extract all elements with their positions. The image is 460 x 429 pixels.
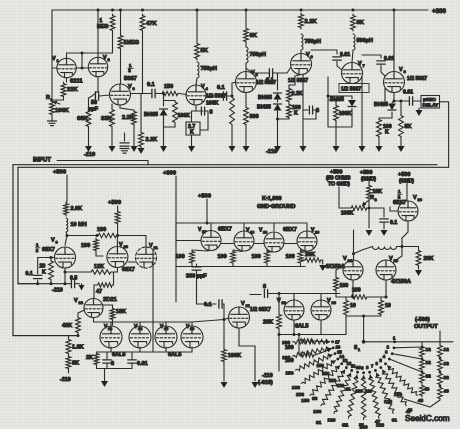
resistor 12K [90, 270, 112, 274]
wire 750uH to V6 [300, 50, 302, 54]
wire V26 grid [390, 207, 398, 211]
tube V4 [186, 85, 206, 105]
svg-text:V: V [306, 52, 310, 58]
resistor 100 (V24-V25) [350, 295, 368, 299]
wire grid link V19-V20 [285, 243, 297, 245]
svg-text:2D21: 2D21 [103, 297, 118, 303]
tube V14 [129, 326, 151, 348]
resistor 1MEG (second) [118, 34, 123, 50]
switch contact 7 [374, 369, 377, 372]
svg-text:120: 120 [337, 383, 345, 388]
svg-text:μSEC: μSEC [423, 97, 436, 103]
tube V8 [384, 72, 405, 93]
junction on +300 rail [97, 9, 100, 12]
wire 47K down to coupling node [142, 32, 144, 94]
resistor 2.0K [64, 202, 69, 216]
svg-text:R: R [46, 95, 50, 101]
tube V11 (dashed) [136, 247, 157, 268]
border top outer [13, 164, 437, 166]
wire cap to V6 grid [273, 67, 291, 73]
wire +300 down [175, 176, 177, 302]
svg-text:91: 91 [392, 417, 398, 423]
wire 22K to R1 node [52, 98, 64, 100]
wire border outer corner to 43K [13, 335, 78, 337]
svg-text:2.2K: 2.2K [146, 137, 158, 143]
junction on +300 rail [111, 9, 114, 12]
svg-text:7: 7 [371, 364, 374, 369]
capacitor bypass at -110 bus [124, 133, 126, 141]
svg-text:DELAY: DELAY [423, 103, 440, 109]
svg-text:0.1: 0.1 [390, 220, 397, 226]
inductor 750uH (V6) [301, 34, 303, 50]
svg-text:V: V [74, 298, 78, 304]
diode IN485 (V8) [384, 88, 386, 101]
resistor 2.2K (V3 cathode) [132, 110, 137, 126]
wire V1 cathode to 22K [66, 79, 68, 83]
svg-text:43K: 43K [62, 323, 72, 329]
svg-text:17: 17 [335, 340, 340, 345]
wire contact 2 to ladder [394, 346, 422, 349]
wire V24 plate [353, 230, 355, 260]
svg-text:K: K [190, 130, 194, 136]
svg-text:1.8K: 1.8K [72, 345, 84, 351]
wire 8 return [303, 110, 316, 119]
ground below R1 [51, 116, 53, 121]
svg-text:11: 11 [154, 245, 159, 250]
svg-text:6AL5: 6AL5 [295, 324, 308, 330]
box uSEC DELAY [421, 96, 440, 109]
svg-text:100: 100 [81, 243, 90, 249]
svg-text:100K: 100K [178, 113, 191, 119]
resistor fan position 9 [361, 376, 365, 420]
svg-text:120: 120 [327, 417, 335, 423]
tube V21 [229, 307, 250, 328]
wire 1MEG to V3 plate [120, 50, 122, 84]
svg-text:750μH: 750μH [201, 66, 218, 72]
svg-text:4X150A: 4X150A [391, 279, 411, 285]
wire bus to grid junction [81, 53, 83, 68]
svg-text:-110: -110 [84, 152, 95, 158]
svg-text:11: 11 [351, 364, 356, 369]
wire V17 grid feed [176, 240, 201, 242]
wire 10MH to V9 plate node [66, 232, 67, 236]
wire V24 cathode [352, 280, 354, 297]
svg-text:V: V [119, 242, 123, 248]
svg-text:IN485: IN485 [144, 112, 158, 118]
svg-text:10: 10 [356, 365, 361, 370]
junction bias bottom [276, 118, 279, 121]
svg-text:V: V [277, 298, 281, 304]
resistor 100K (R2 pot) [339, 207, 350, 209]
wire V3 cathode to 2.2K [120, 105, 134, 110]
svg-text:V: V [52, 56, 56, 62]
wire V12 grid left to 43K [78, 310, 85, 316]
svg-text:9: 9 [361, 366, 364, 371]
switch contact 12 [345, 366, 348, 369]
wire bias to -110 [277, 119, 279, 147]
wire left rail from +300 down to R1 [51, 10, 53, 100]
svg-text:-110: -110 [262, 373, 273, 379]
switch contact 6 [379, 366, 382, 369]
svg-text:K·1,000: K·1,000 [262, 196, 282, 202]
svg-text:8: 8 [263, 284, 266, 290]
wire 0.01 to V7 grid [337, 62, 342, 71]
wire V9 cathode [64, 268, 66, 284]
switch contact 10 [356, 371, 359, 374]
resistor 18K [102, 305, 113, 307]
arrow 2.2K second to -110 [140, 148, 142, 149]
resistor 20K (V9 grid) [49, 260, 54, 282]
tube V23 [311, 300, 331, 320]
resistor 6K (V7 plate) [351, 14, 356, 31]
arrow V4 grid network to -110 [163, 127, 165, 147]
svg-text:5K: 5K [201, 48, 209, 54]
arrow filter to ground [104, 369, 106, 382]
svg-text:SeekIC.com: SeekIC.com [405, 414, 450, 423]
wire V12 cathode bus [94, 318, 193, 323]
resistor 1.8K [68, 336, 70, 338]
tube V12 [84, 299, 103, 318]
resistor 10 (left) [346, 296, 350, 298]
junction on +300 rail [352, 9, 355, 12]
inductor 10 MH [66, 218, 68, 232]
wire +300 top rail [52, 9, 428, 11]
wire V7 grid network [336, 61, 338, 63]
resistor 100 (V18) [231, 250, 236, 265]
svg-text:2: 2 [36, 248, 39, 253]
svg-text:14: 14 [138, 327, 143, 331]
resistor 20K (V25) [416, 249, 421, 267]
svg-text:6K: 6K [250, 33, 258, 39]
svg-text:100K: 100K [341, 211, 354, 217]
junction V21 grid node [223, 318, 226, 321]
svg-text:10 MH: 10 MH [71, 222, 87, 228]
arrow 20K V20 [321, 260, 324, 264]
svg-text:2.2K: 2.2K [122, 115, 134, 121]
svg-text:5687: 5687 [124, 76, 137, 82]
svg-text:47K: 47K [146, 21, 157, 27]
inductor (V24/V25 plates) [373, 247, 397, 250]
resistor 100K (V6 bias) [287, 103, 292, 119]
svg-text:160: 160 [292, 385, 300, 391]
junction V1/V2 bus [81, 52, 84, 55]
svg-text:2: 2 [108, 57, 111, 62]
resistor fan position 11 [334, 373, 351, 413]
svg-text:6AL5: 6AL5 [168, 352, 181, 358]
wire 500uH to V7 [352, 50, 353, 63]
wire 0.01 to V8 grid [381, 66, 385, 77]
wire 50uuF to V3 grid [99, 95, 110, 96]
svg-text:20K: 20K [424, 256, 434, 262]
svg-text:10: 10 [385, 303, 391, 309]
svg-text:22: 22 [426, 374, 432, 380]
capacitor 0.1 (V21 grid) [197, 303, 217, 305]
resistor 100K (V5 grid) [231, 95, 234, 98]
svg-text:100K: 100K [339, 111, 352, 117]
wire 1MEG top to rail [120, 10, 122, 34]
ladder resistor chain B [439, 342, 441, 344]
arrow 2.7K to -110 [191, 135, 193, 147]
resistor 100 (V20) [298, 250, 303, 265]
arrow 0.5 ground [75, 283, 80, 285]
svg-text:0.1: 0.1 [266, 78, 274, 84]
wire 12K to 47 elbow [112, 272, 114, 285]
svg-text:91: 91 [342, 423, 348, 429]
switch contact 1 [393, 340, 396, 343]
wire V1 plate to grid bus [67, 53, 99, 58]
wire rail to 6K [245, 10, 247, 27]
svg-text:100: 100 [252, 254, 261, 260]
wire cap to V5 grid [227, 82, 236, 96]
junction on +300 rail [141, 9, 144, 12]
inductor 750uH (V4 plate) [197, 62, 199, 78]
switch contact 11 [350, 369, 353, 372]
svg-text:1/2 5687: 1/2 5687 [407, 76, 427, 82]
wire delay box to right border [440, 102, 449, 168]
svg-text:19: 19 [263, 231, 267, 235]
wire 18K bottom to V13 bus [112, 321, 114, 325]
resistor fan position 5 [388, 366, 418, 396]
svg-text:8: 8 [210, 110, 213, 116]
wire x176 vertical [175, 223, 177, 246]
resistor 100K (R1) [50, 100, 55, 116]
capacitor 0.01 (into V7) [300, 49, 302, 51]
wire 750uH to V5 [245, 63, 247, 72]
arrow 100K V21 [223, 363, 225, 381]
wire V26 cathode to V24/V25 [402, 222, 408, 247]
svg-text:150: 150 [329, 378, 337, 383]
tube V16 [181, 326, 203, 348]
wire 150 to V4 grid [179, 94, 187, 95]
switch contact 5 [384, 362, 387, 365]
resistor fan position 14 [301, 361, 335, 384]
inductor 500uH (V7) [353, 34, 355, 50]
tube V18 [234, 231, 254, 251]
wire V9 grid line [38, 257, 55, 259]
capacitor 8 (V6 cathode) [303, 109, 308, 111]
tube V17 [201, 231, 221, 251]
wire +500 GND2 to V26 [406, 180, 408, 201]
switch contact 14 [336, 358, 339, 361]
svg-text:6: 6 [311, 54, 314, 59]
tube V7 [342, 63, 363, 84]
svg-text:V: V [358, 61, 362, 67]
resistor 5K (V8) [400, 101, 402, 114]
ground arrow below delay box [418, 108, 420, 110]
tube V22 [284, 300, 304, 320]
svg-text:7: 7 [363, 63, 366, 68]
svg-text:18K: 18K [116, 309, 126, 315]
svg-text:2: 2 [375, 197, 378, 202]
svg-text:43: 43 [444, 389, 450, 395]
svg-text:3: 3 [133, 86, 136, 91]
svg-text:6BX7: 6BX7 [218, 227, 232, 233]
wire rail to V8 plate [393, 10, 395, 72]
svg-text:51: 51 [359, 423, 365, 429]
wire 0.1 cap to 150 resistor [155, 93, 161, 95]
capacitor 0.01 (V8 out) [409, 97, 412, 106]
svg-text:15: 15 [337, 350, 342, 355]
wire 10K to R2 node [368, 200, 370, 208]
svg-text:22: 22 [282, 300, 287, 305]
resistor 6K lower [66, 355, 71, 370]
resistor 20K (V20 bus) [304, 258, 322, 262]
tube V15 [155, 326, 177, 348]
svg-text:6BX7: 6BX7 [393, 200, 406, 206]
wire cathode bus V17-V20 [176, 266, 305, 268]
svg-text:16: 16 [336, 345, 341, 350]
wire V22 top stubs [293, 294, 295, 300]
svg-text:INPUT: INPUT [33, 158, 51, 164]
svg-text:20K: 20K [305, 252, 315, 258]
wire bias network [289, 75, 301, 88]
wire 100 grid to V10 [96, 252, 103, 256]
svg-text:100: 100 [97, 227, 106, 233]
svg-text:10: 10 [124, 244, 129, 249]
svg-text:160: 160 [313, 409, 321, 415]
svg-text:150: 150 [286, 370, 294, 376]
svg-text:2.2K: 2.2K [292, 91, 303, 97]
resistor fan position 13 [310, 366, 340, 396]
svg-text:9: 9 [56, 240, 59, 245]
resistor 100K (V8) [377, 118, 382, 138]
capacitor 50uuF [95, 92, 98, 101]
svg-text:120: 120 [384, 399, 392, 405]
svg-text:V: V [399, 67, 403, 73]
resistor 150 (series) [161, 91, 179, 95]
svg-text:100K: 100K [228, 353, 241, 359]
boxed label 1/2 5687 V7 [339, 84, 369, 93]
wire 360uuF down [196, 270, 198, 304]
wire 6K to 750uH [245, 43, 247, 47]
border top inner [18, 166, 449, 168]
tube V2 [88, 57, 107, 76]
potentiometer R2 arrow [363, 200, 369, 205]
resistor 100K (V4 grid) [164, 100, 176, 102]
junction on +300 rail [245, 9, 248, 12]
svg-text:47: 47 [375, 419, 381, 425]
resistor 22K [61, 82, 66, 98]
wire grid link V17-V18 [222, 243, 234, 245]
svg-text:0.01: 0.01 [384, 56, 394, 62]
junction S1 [362, 340, 366, 344]
svg-text:+500: +500 [398, 172, 410, 178]
border left outer [12, 165, 14, 336]
arrow 20K V25 gnd [418, 267, 420, 269]
svg-text:100: 100 [282, 355, 290, 361]
tube V1 [57, 58, 76, 77]
svg-text:22: 22 [444, 375, 450, 381]
resistor fan position 8 [369, 375, 381, 418]
svg-text:100K: 100K [55, 108, 70, 114]
svg-text:150: 150 [164, 84, 173, 90]
svg-text:V: V [389, 256, 393, 262]
wire bus to S1 [363, 316, 365, 342]
resistor 2.2K (47K node) [139, 131, 144, 148]
resistor fan position 15 [296, 354, 333, 371]
svg-text:+500: +500 [53, 170, 66, 176]
svg-text:0.01: 0.01 [340, 52, 350, 58]
wire V17-V20 plate bus [176, 222, 307, 224]
tube V10 [107, 247, 128, 268]
resistor 5K [195, 42, 200, 60]
resistor 100 (fan feed 2) [299, 353, 315, 357]
svg-text:8: 8 [366, 365, 369, 370]
wire contact 4 to ladder [389, 359, 422, 372]
wire V2 plate to rail [97, 10, 99, 57]
switch contact 4 [388, 358, 391, 361]
svg-text:GND·GROUND: GND·GROUND [257, 204, 296, 210]
resistor 2.2K (V6 bias) [287, 87, 292, 103]
tube V25 [376, 260, 396, 280]
svg-text:12K: 12K [94, 264, 104, 270]
svg-text:0.1: 0.1 [26, 271, 33, 277]
resistor 100 (grid) [94, 238, 99, 252]
switch contact 13 [340, 362, 343, 365]
svg-text:V: V [343, 256, 347, 262]
svg-text:0.1: 0.1 [217, 85, 225, 91]
switch contact 9 [362, 371, 365, 374]
resistor 6K (V5 plate) [244, 27, 249, 43]
wire 8 cap return [200, 111, 208, 130]
wire V21 cathode [239, 328, 255, 381]
wire left feeder x=153 [152, 250, 154, 352]
svg-text:2: 2 [398, 195, 401, 200]
wire 1MEG down [112, 32, 114, 53]
ladder resistor chain A [421, 342, 423, 345]
wire input line [57, 160, 148, 162]
svg-text:(-500): (-500) [415, 317, 430, 323]
svg-text:750μH: 750μH [305, 39, 322, 45]
svg-text:2K: 2K [86, 355, 93, 361]
diode IN485 (V7) [328, 96, 352, 99]
wire 33K top to V3 cathode [111, 104, 113, 108]
wire feed1 to contact 17 [315, 340, 326, 343]
svg-text:1/2 5687: 1/2 5687 [288, 78, 308, 84]
wire V1 grid to left rail [52, 67, 56, 69]
resistor 10K [368, 180, 370, 184]
tube V13 [100, 326, 122, 348]
svg-text:33K: 33K [101, 116, 112, 122]
svg-text:20K: 20K [263, 320, 273, 326]
capacitor 0.01 (V13/V14) [131, 352, 133, 359]
wire V7 cathode down [361, 77, 363, 147]
svg-text:-110: -110 [60, 377, 71, 383]
svg-text:2.2K: 2.2K [305, 19, 318, 25]
arrow 2.2K to -110 [133, 126, 135, 147]
arrow 100K V8 [378, 138, 380, 147]
switch contact 3 [391, 352, 394, 355]
capacitor 0.01 (into V8) [362, 55, 381, 58]
junction V22 node [278, 292, 281, 295]
svg-text:0.01: 0.01 [137, 361, 148, 367]
resistor 47K [140, 14, 145, 32]
svg-text:IN485: IN485 [257, 105, 271, 111]
junction on +300 rail [300, 9, 303, 12]
wire 2K top [96, 351, 98, 353]
wire 68K top [88, 98, 90, 108]
inductor 750uH (V5) [246, 47, 248, 63]
svg-text:1/2 68X7: 1/2 68X7 [250, 307, 271, 313]
svg-text:0.01: 0.01 [403, 90, 413, 96]
svg-text:100: 100 [176, 254, 185, 260]
resistor 100 (fan feed 1) [299, 339, 315, 343]
svg-text:16: 16 [190, 327, 194, 331]
arrow 68K to -110 [88, 128, 90, 147]
wire V4 plate to cap [206, 95, 223, 97]
wire 12K to V10 cathode [112, 268, 117, 273]
switch contact 15 [334, 352, 337, 355]
